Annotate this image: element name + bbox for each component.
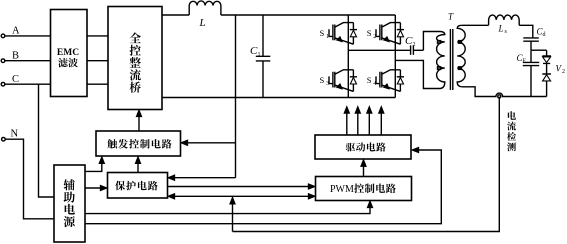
svg-text:2: 2 bbox=[373, 34, 376, 40]
svg-text:S: S bbox=[367, 28, 372, 38]
svg-text:4: 4 bbox=[373, 81, 376, 87]
wire auxiliary to protection bbox=[85, 185, 107, 190]
wire auxiliary to drive circuit bbox=[85, 147, 441, 223]
svg-text:S: S bbox=[367, 75, 372, 85]
svg-text:B: B bbox=[12, 51, 19, 62]
svg-text:3: 3 bbox=[326, 81, 329, 87]
svg-text:1: 1 bbox=[326, 34, 329, 40]
svg-text:EMC: EMC bbox=[57, 48, 79, 58]
wire protection to trigger bbox=[135, 157, 140, 173]
svg-text:PWM: PWM bbox=[330, 184, 354, 195]
diode V2 lower bbox=[542, 74, 551, 97]
transformer T winding tap marks primary bbox=[438, 41, 441, 43]
svg-text:2: 2 bbox=[413, 42, 416, 48]
wire bridge right leg bbox=[394, 15, 396, 98]
wire DC bus bottom rail bbox=[162, 97, 395, 99]
junction current sense bbox=[498, 95, 501, 98]
label current detection bbox=[507, 111, 516, 151]
transistor S3 bbox=[320, 70, 358, 92]
drive circuit box bbox=[315, 135, 411, 159]
capacitor C1 bbox=[250, 15, 270, 98]
PWM control circuit box bbox=[316, 177, 412, 201]
terminal A bbox=[1, 26, 20, 38]
transformer T primary winding bbox=[437, 32, 445, 89]
wire Ls to Cd bbox=[519, 25, 533, 38]
svg-text:S: S bbox=[320, 75, 325, 85]
terminal C bbox=[1, 74, 19, 86]
wire current sense line bbox=[230, 97, 499, 232]
svg-text:T: T bbox=[448, 12, 454, 22]
inductor L bbox=[189, 1, 221, 29]
wire secondary bottom rail bbox=[462, 87, 547, 97]
svg-text:N: N bbox=[11, 129, 19, 140]
wire phase C branch to auxiliary supply bbox=[39, 84, 55, 197]
wire protection to PWM bbox=[168, 184, 316, 189]
wire sense to protection circuit bbox=[168, 175, 236, 180]
wire output node split bbox=[531, 49, 547, 51]
wire DC bus top rail continues bbox=[221, 14, 395, 16]
wire sense to trigger control circuit bbox=[181, 140, 236, 145]
wire bus voltage sense line bbox=[235, 15, 237, 178]
inductor Ls bbox=[489, 15, 520, 35]
svg-text:L: L bbox=[498, 24, 504, 34]
wire secondary top to Ls bbox=[462, 24, 489, 26]
terminal N bbox=[2, 129, 19, 142]
svg-text:L: L bbox=[199, 17, 206, 29]
transformer T winding tap marks secondary bbox=[459, 41, 462, 43]
terminal B bbox=[1, 51, 19, 63]
wire phase C bbox=[5, 83, 51, 85]
capacitor C2 bbox=[405, 35, 416, 55]
svg-text:2: 2 bbox=[562, 69, 565, 75]
capacitor Cd bbox=[523, 27, 545, 51]
svg-text:s: s bbox=[505, 29, 508, 35]
wire DC bus top rail bbox=[162, 14, 189, 16]
transistor S2 bbox=[367, 23, 404, 45]
svg-text:E: E bbox=[523, 59, 527, 65]
wire auxiliary to trigger bbox=[85, 157, 104, 172]
wire C2 to transformer primary top bbox=[413, 32, 440, 51]
svg-text:d: d bbox=[543, 32, 546, 38]
EMC filter box bbox=[51, 10, 88, 97]
wire PWM to drive circuit bbox=[361, 160, 366, 177]
transformer T secondary winding bbox=[457, 25, 465, 87]
svg-text:1: 1 bbox=[258, 52, 261, 58]
svg-text:C: C bbox=[12, 74, 19, 85]
wire auxiliary to PWM bottom bbox=[85, 201, 373, 214]
transistor S1 bbox=[320, 23, 358, 45]
auxiliary power supply box bbox=[54, 165, 85, 242]
wire bridge output left leg to C2 bbox=[348, 49, 410, 51]
diode V2 upper bbox=[542, 50, 551, 74]
wires EMC filter to rectifier bbox=[87, 36, 108, 84]
trigger control circuit box bbox=[96, 131, 181, 156]
transformer T core bbox=[450, 29, 452, 90]
wire bridge left leg bbox=[347, 15, 349, 98]
transistor S4 bbox=[367, 70, 404, 92]
wire protection-PWM shared supply line bbox=[168, 194, 315, 199]
wire bridge output right leg to transformer primary bottom bbox=[395, 60, 440, 88]
svg-text:A: A bbox=[12, 26, 20, 37]
full-controlled rectifier bridge box bbox=[108, 7, 162, 110]
capacitor CE bbox=[517, 50, 540, 96]
svg-text:S: S bbox=[320, 28, 325, 38]
wire N to auxiliary supply bbox=[5, 139, 54, 219]
wire phase A bbox=[5, 35, 51, 37]
arrow trigger to rectifier bbox=[136, 110, 141, 131]
wire phase B bbox=[5, 60, 51, 62]
label V2 bbox=[556, 64, 566, 76]
protection circuit box bbox=[108, 173, 168, 199]
gate drive arrows bbox=[344, 107, 384, 135]
